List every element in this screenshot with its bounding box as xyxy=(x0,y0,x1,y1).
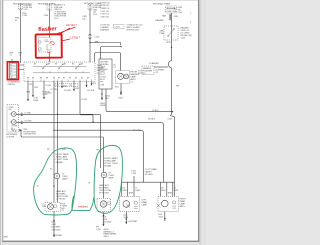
svg-text:B+: B+ xyxy=(10,65,12,67)
svg-text:C2: C2 xyxy=(10,55,12,57)
svg-text:DK GRN: DK GRN xyxy=(25,121,33,123)
svg-text:FRONT PARK/: FRONT PARK/ xyxy=(56,153,70,156)
svg-text:C100: C100 xyxy=(93,14,97,16)
svg-text:PPL: PPL xyxy=(100,81,103,83)
svg-text:BLK/WHT: BLK/WHT xyxy=(129,221,139,223)
svg-text:LP SW: LP SW xyxy=(42,94,48,96)
svg-text:BLK/WHT: BLK/WHT xyxy=(54,235,64,237)
svg-text:ORN: ORN xyxy=(44,15,49,17)
svg-text:LT BLU: LT BLU xyxy=(81,99,88,101)
svg-text:SIGNAL: SIGNAL xyxy=(104,165,112,168)
svg-text:LAMP: LAMP xyxy=(62,178,68,181)
svg-text:DK GRN: DK GRN xyxy=(133,130,141,132)
svg-text:F GRY 120: F GRY 120 xyxy=(101,14,110,16)
svg-text:LAMP: LAMP xyxy=(142,204,148,207)
svg-text:TRN: TRN xyxy=(42,206,47,208)
svg-text:C100 2: C100 2 xyxy=(115,27,121,29)
svg-text:C PNK 339: C PNK 339 xyxy=(101,5,110,7)
svg-text:DK GRN: DK GRN xyxy=(87,90,95,92)
svg-text:SIGNAL: SIGNAL xyxy=(56,161,64,164)
svg-text:flasher: flasher xyxy=(38,26,57,33)
svg-text:PPL: PPL xyxy=(47,149,50,151)
svg-text:GRN: GRN xyxy=(161,190,166,192)
svg-text:HOT AT ALL TIMES: HOT AT ALL TIMES xyxy=(153,3,171,6)
svg-text:4WD: 4WD xyxy=(4,237,9,239)
svg-text:ORN: ORN xyxy=(166,42,171,44)
svg-text:BRN: BRN xyxy=(129,193,134,195)
svg-text:LT GRN: LT GRN xyxy=(51,89,58,91)
svg-text:ASSY: ASSY xyxy=(180,205,186,208)
svg-text:C3: C3 xyxy=(19,55,21,57)
svg-text:LS712A ?: LS712A ? xyxy=(66,24,77,27)
svg-text:GRN: GRN xyxy=(135,190,140,192)
svg-text:WELL: WELL xyxy=(104,236,110,238)
svg-text:CENTER: CENTER xyxy=(8,84,16,86)
svg-text:C2: C2 xyxy=(57,85,59,87)
svg-text:HOT AT ALL TIMES: HOT AT ALL TIMES xyxy=(38,3,56,6)
svg-text:D BRN 141: D BRN 141 xyxy=(101,8,110,10)
svg-text:LT GRN: LT GRN xyxy=(60,149,67,151)
svg-text:BRN: BRN xyxy=(168,193,173,195)
svg-text:BLK: BLK xyxy=(105,98,109,100)
svg-text:DK BLU: DK BLU xyxy=(148,119,156,121)
svg-text:LT BLU: LT BLU xyxy=(45,85,52,87)
svg-text:GRN: GRN xyxy=(174,190,179,192)
svg-text:PWR: PWR xyxy=(160,33,165,35)
svg-text:SEE PWR DIST: SEE PWR DIST xyxy=(127,30,140,32)
svg-text:TURN LAMP: TURN LAMP xyxy=(56,156,68,159)
svg-text:LT BLU: LT BLU xyxy=(152,110,159,112)
svg-text:RT FRONT: RT FRONT xyxy=(99,193,110,195)
svg-text:G BLK 150: G BLK 150 xyxy=(101,16,110,18)
svg-text:BLK: BLK xyxy=(115,87,119,89)
svg-text:LT GRN: LT GRN xyxy=(25,113,32,115)
svg-text:wrecked: wrecked xyxy=(78,204,88,208)
svg-text:HAZARD: HAZARD xyxy=(156,19,165,22)
svg-text:FLASHER: FLASHER xyxy=(150,62,160,65)
svg-text:C100: C100 xyxy=(24,9,28,11)
svg-text:ORN: ORN xyxy=(174,16,179,18)
svg-text:LT FRONT: LT FRONT xyxy=(56,199,66,201)
svg-text:CLUSTER: CLUSTER xyxy=(6,136,15,138)
svg-text:GROUND: GROUND xyxy=(52,229,61,231)
svg-text:B ORN 140: B ORN 140 xyxy=(101,2,110,4)
svg-text:LS71B ?: LS71B ? xyxy=(71,36,81,39)
svg-text:3 MARKER: 3 MARKER xyxy=(100,29,110,32)
svg-text:DK GRN: DK GRN xyxy=(64,90,72,92)
svg-text:39: 39 xyxy=(11,128,13,130)
svg-text:GRN: GRN xyxy=(122,190,127,192)
svg-text:LAMP: LAMP xyxy=(108,177,114,180)
svg-text:PPL: PPL xyxy=(69,85,72,87)
svg-text:GROUND: GROUND xyxy=(103,222,112,224)
svg-text:E PPL 420: E PPL 420 xyxy=(101,11,109,13)
svg-text:FUSE 20A: FUSE 20A xyxy=(167,10,177,13)
svg-text:DK GRN: DK GRN xyxy=(145,174,153,176)
svg-text:C100: C100 xyxy=(54,18,58,20)
svg-text:DISTRIBUTION: DISTRIBUTION xyxy=(24,134,37,136)
svg-text:PPL: PPL xyxy=(29,84,32,86)
svg-text:GRND: GRND xyxy=(100,105,106,107)
svg-text:DOME: DOME xyxy=(33,100,39,102)
